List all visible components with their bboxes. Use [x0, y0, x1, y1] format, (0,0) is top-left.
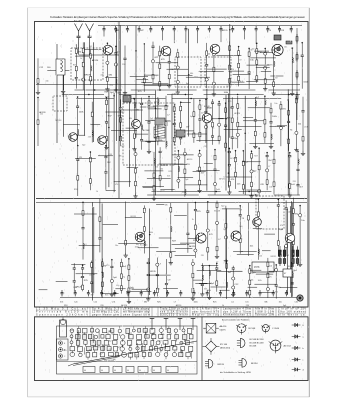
svg-text:R25: R25 — [63, 350, 66, 352]
svg-text:10n: 10n — [115, 245, 118, 247]
svg-text:BF195: BF195 — [271, 256, 277, 258]
svg-text:0,1: 0,1 — [168, 121, 171, 123]
svg-text:L7: L7 — [268, 166, 270, 168]
svg-text:BY 164: BY 164 — [220, 344, 228, 346]
svg-text:15k: 15k — [89, 275, 92, 277]
svg-text:2k2: 2k2 — [159, 340, 162, 342]
svg-text:BC148: BC148 — [230, 158, 236, 160]
svg-text:00: 00 — [114, 370, 116, 372]
svg-text:R18: R18 — [73, 64, 76, 66]
svg-text:10n: 10n — [284, 47, 287, 49]
svg-text:T4: T4 — [269, 30, 271, 32]
svg-text:C12: C12 — [94, 302, 98, 304]
svg-text:R25: R25 — [111, 334, 114, 336]
svg-text:R25: R25 — [168, 171, 171, 173]
svg-text:L 708: L 708 — [74, 363, 78, 365]
svg-text:AF126: AF126 — [219, 178, 225, 181]
svg-text:15k: 15k — [279, 302, 282, 304]
svg-text:0,1: 0,1 — [181, 342, 184, 344]
svg-text:C9: C9 — [117, 30, 119, 32]
svg-text:470: 470 — [106, 265, 109, 267]
svg-text:100k: 100k — [207, 290, 211, 292]
svg-text:BF195: BF195 — [218, 364, 225, 366]
svg-text:8p2: 8p2 — [275, 292, 278, 294]
svg-text:5p6: 5p6 — [135, 355, 138, 357]
svg-text:R18: R18 — [105, 295, 108, 297]
svg-text:5p6: 5p6 — [130, 287, 133, 289]
svg-text:8p2: 8p2 — [230, 107, 233, 109]
svg-text:3n3: 3n3 — [167, 175, 170, 177]
svg-text:Pos 200.000: Pos 200.000 — [104, 360, 114, 362]
svg-text:(B30C550): (B30C550) — [220, 348, 230, 350]
svg-text:5p6: 5p6 — [190, 116, 193, 118]
svg-text:1k: 1k — [96, 191, 98, 193]
svg-text:T4: T4 — [71, 337, 73, 339]
svg-text:100k: 100k — [135, 247, 139, 249]
svg-text:00: 00 — [84, 370, 86, 372]
svg-text:68k: 68k — [162, 334, 165, 336]
svg-text:Anschlussbilder der Halbleiter: Anschlussbilder der Halbleiter — [222, 319, 250, 322]
svg-text:R25: R25 — [70, 330, 73, 332]
svg-text:100k: 100k — [258, 280, 262, 282]
svg-text:R18: R18 — [182, 192, 185, 194]
svg-text:68k: 68k — [265, 302, 268, 304]
svg-text:47p: 47p — [116, 285, 119, 287]
svg-text:R18: R18 — [74, 189, 77, 191]
svg-text:47p: 47p — [122, 276, 125, 278]
svg-text:8p2: 8p2 — [221, 206, 224, 208]
svg-text:BF195: BF195 — [222, 30, 228, 32]
svg-text:BC158 BC168: BC158 BC168 — [250, 342, 265, 344]
svg-text:0,1: 0,1 — [129, 302, 132, 304]
svg-text:1k: 1k — [212, 128, 214, 130]
svg-text:68k: 68k — [144, 302, 147, 304]
svg-text:1n5: 1n5 — [144, 245, 147, 247]
svg-text:220: 220 — [231, 69, 234, 71]
svg-text:0,1: 0,1 — [231, 302, 234, 304]
svg-text:2k2: 2k2 — [161, 338, 164, 340]
svg-text:3n3: 3n3 — [60, 302, 63, 304]
svg-text:R25: R25 — [268, 277, 271, 279]
svg-text:BF195: BF195 — [267, 64, 273, 66]
svg-text:470: 470 — [115, 184, 118, 186]
svg-text:220: 220 — [259, 256, 262, 258]
svg-text:220: 220 — [89, 349, 92, 351]
svg-text:Klinkenbuchse 3,5: Klinkenbuchse 3,5 — [223, 313, 252, 316]
svg-text:68k: 68k — [165, 205, 168, 207]
svg-text:AA 116: AA 116 — [220, 325, 228, 328]
svg-text:3n3: 3n3 — [204, 289, 207, 291]
svg-text:C31: C31 — [269, 187, 272, 189]
svg-text:BC148: BC148 — [249, 328, 256, 330]
svg-text:gegen Masse gem: gegen Masse gem — [92, 313, 119, 316]
svg-text:470: 470 — [118, 347, 121, 349]
svg-text:die Schaltbilder in Stellung U: die Schaltbilder in Stellung UKW — [220, 371, 252, 374]
svg-text:1k: 1k — [80, 58, 82, 60]
svg-text:330: 330 — [160, 169, 163, 171]
svg-text:C31: C31 — [276, 126, 279, 128]
svg-text:25V: 25V — [282, 108, 286, 110]
svg-text:Spannungen 20kOhm/V: Spannungen 20kOhm/V — [36, 313, 88, 316]
svg-text:C9: C9 — [93, 339, 95, 341]
svg-text:ohne Signal UKW: ohne Signal UKW — [123, 313, 151, 316]
svg-text:00: 00 — [139, 370, 141, 372]
svg-text:R47: R47 — [254, 155, 257, 157]
svg-text:C12: C12 — [157, 288, 160, 290]
svg-text:C9: C9 — [240, 210, 242, 212]
svg-text:AF126: AF126 — [92, 59, 99, 62]
svg-text:R25: R25 — [157, 302, 161, 304]
svg-text:5p6: 5p6 — [121, 146, 124, 148]
svg-text:00: 00 — [153, 370, 155, 372]
svg-text:OA 95: OA 95 — [220, 328, 227, 331]
svg-text:T4: T4 — [84, 244, 86, 246]
svg-text:25V: 25V — [186, 164, 190, 166]
svg-text:47p: 47p — [45, 81, 48, 83]
svg-text:4n7: 4n7 — [100, 353, 103, 355]
svg-text:R47: R47 — [140, 30, 143, 32]
svg-text:00: 00 — [101, 370, 103, 372]
svg-text:BC148 BC158: BC148 BC158 — [250, 339, 265, 341]
svg-text:68k: 68k — [190, 73, 193, 75]
svg-text:AF126: AF126 — [234, 112, 240, 115]
svg-text:5p6: 5p6 — [185, 179, 188, 181]
svg-text:5p6: 5p6 — [223, 229, 226, 231]
svg-text:T4: T4 — [103, 346, 105, 348]
svg-text:00: 00 — [167, 370, 169, 372]
svg-text:8p2: 8p2 — [82, 145, 85, 147]
svg-text:1k: 1k — [192, 219, 194, 221]
svg-text:Kurzwellen- Transistor- Empfae: Kurzwellen- Transistor- Empfaenger mit e… — [50, 15, 305, 19]
svg-text:220: 220 — [293, 181, 296, 183]
svg-text:AF126: AF126 — [207, 107, 213, 110]
svg-text:100k: 100k — [73, 287, 77, 289]
svg-text:1k: 1k — [162, 190, 164, 192]
svg-text:Ant 1 Ant 2: Ant 1 Ant 2 — [74, 20, 85, 23]
svg-text:Toleranz 10%: Toleranz 10% — [255, 313, 275, 316]
svg-text:10n: 10n — [191, 343, 194, 345]
svg-text:BC168: BC168 — [250, 346, 257, 348]
svg-text:15k: 15k — [169, 333, 172, 335]
svg-text:C 2040: C 2040 — [272, 328, 280, 330]
svg-text:2k2: 2k2 — [40, 114, 43, 116]
svg-text:BF195: BF195 — [149, 271, 156, 273]
svg-text:BF195: BF195 — [84, 74, 91, 76]
svg-text:2k2: 2k2 — [109, 340, 112, 342]
svg-text:B30C550 Gleichr: B30C550 Gleichr — [160, 313, 188, 316]
svg-text:5p6: 5p6 — [251, 272, 254, 274]
svg-text:BF194: BF194 — [251, 363, 258, 365]
svg-text:AD 162: AD 162 — [284, 345, 292, 348]
svg-text:AF126: AF126 — [189, 245, 196, 248]
svg-text:R25: R25 — [213, 302, 217, 304]
svg-text:470: 470 — [280, 225, 283, 227]
svg-text:C31: C31 — [158, 56, 161, 58]
svg-text:c: c — [303, 360, 304, 362]
svg-text:100k: 100k — [194, 302, 198, 304]
svg-text:C31: C31 — [295, 302, 299, 304]
svg-text:00: 00 — [127, 370, 129, 372]
svg-text:C9: C9 — [239, 60, 241, 62]
svg-text:1n5: 1n5 — [245, 302, 248, 304]
svg-text:L7: L7 — [216, 261, 218, 263]
svg-text:BF195: BF195 — [131, 216, 137, 218]
svg-text:R18: R18 — [122, 64, 125, 66]
svg-text:220: 220 — [201, 255, 204, 257]
svg-text:10n: 10n — [252, 49, 255, 51]
svg-text:4578: 4578 — [254, 266, 260, 269]
svg-text:AF126: AF126 — [187, 158, 193, 161]
svg-text:10n: 10n — [274, 103, 277, 105]
svg-text:BC148: BC148 — [214, 211, 220, 213]
svg-text:Regler 5k log: Regler 5k log — [192, 313, 220, 316]
svg-text:R18: R18 — [281, 30, 284, 32]
svg-text:1n5: 1n5 — [80, 277, 83, 279]
svg-text:L7: L7 — [174, 302, 176, 304]
